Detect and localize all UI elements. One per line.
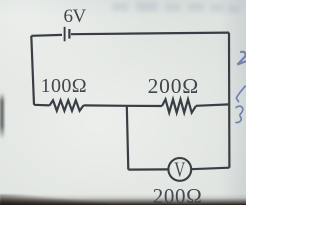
- wire: top, battery to top-right corner: [71, 33, 229, 35]
- battery B1 (6V): short plate: [68, 29, 70, 39]
- wire: left vertical: [31, 36, 34, 105]
- left edge smudge: [0, 93, 4, 139]
- resistor R2 200Ω zigzag: [162, 99, 196, 112]
- pen mark: "3"-like squiggle right margin: [236, 106, 243, 122]
- svg-text:200Ω: 200Ω: [153, 184, 203, 205]
- bottom shadow band: [0, 194, 246, 205]
- pen mark: diagonal stroke right margin: [236, 86, 245, 101]
- wire: top, left-corner to battery: [31, 34, 62, 37]
- svg-text:V: V: [174, 158, 185, 181]
- wire: voltmeter branch, vertical from junction node: [127, 106, 129, 170]
- wire: middle, between resistors (through junction node): [84, 104, 163, 107]
- wire: bottom, branch corner to voltmeter: [128, 168, 168, 170]
- bottom-left dark corner wedge: [0, 194, 110, 205]
- battery B1 (6V): long plate: [64, 27, 66, 42]
- resistor R1 100Ω zigzag: [50, 100, 84, 111]
- wire: middle, left stub: [34, 104, 50, 107]
- faint show-through print marks at top: [110, 1, 236, 13]
- wire: middle, right stub to right vertical: [196, 104, 229, 105]
- wire: right vertical: [228, 33, 231, 168]
- svg-text:200Ω: 200Ω: [148, 74, 199, 98]
- voltmeter V1: circle: [168, 158, 191, 181]
- pen mark: "2"-like squiggle right margin: [238, 52, 247, 65]
- wire: bottom, voltmeter to bottom-right corner: [191, 168, 230, 170]
- svg-text:6V: 6V: [64, 6, 87, 27]
- svg-text:100Ω: 100Ω: [41, 75, 87, 97]
